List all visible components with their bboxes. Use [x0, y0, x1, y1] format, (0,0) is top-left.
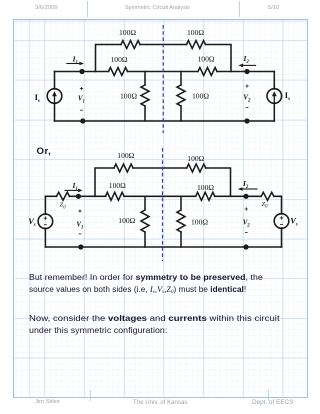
- svg-text:Is: Is: [35, 93, 40, 104]
- svg-text:100Ω: 100Ω: [187, 154, 204, 163]
- svg-text:V2: V2: [243, 220, 251, 229]
- svg-text:V1: V1: [76, 222, 83, 231]
- svg-text:Vs: Vs: [28, 217, 36, 228]
- svg-text:100Ω: 100Ω: [192, 91, 209, 100]
- svg-text:Vs: Vs: [290, 217, 298, 228]
- svg-text:100Ω: 100Ω: [119, 28, 136, 37]
- svg-text:Is: Is: [285, 91, 290, 102]
- svg-text:100Ω: 100Ω: [197, 183, 214, 192]
- svg-text:V1: V1: [78, 96, 85, 105]
- svg-text:100Ω: 100Ω: [120, 91, 137, 100]
- svg-text:100Ω: 100Ω: [197, 55, 214, 64]
- svg-text:100Ω: 100Ω: [118, 216, 135, 225]
- svg-text:Z0: Z0: [60, 202, 67, 211]
- svg-text:100Ω: 100Ω: [117, 151, 134, 160]
- svg-text:100Ω: 100Ω: [110, 55, 127, 64]
- svg-text:Z0: Z0: [262, 201, 269, 210]
- svg-text:100Ω: 100Ω: [187, 28, 204, 37]
- svg-text:100Ω: 100Ω: [109, 181, 126, 190]
- svg-text:V2: V2: [243, 95, 251, 104]
- svg-text:I2: I2: [242, 179, 249, 190]
- svg-text:I2: I2: [243, 54, 250, 65]
- svg-text:100Ω: 100Ω: [191, 218, 208, 227]
